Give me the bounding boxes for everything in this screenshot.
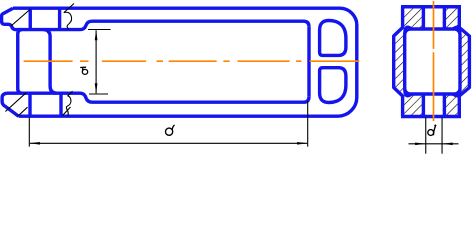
label d <box>428 125 436 136</box>
D-hole upper <box>320 20 346 55</box>
main view outer contour <box>13 8 357 116</box>
jaw slot wall V1 top <box>29 8 32 29</box>
dimension d <box>409 118 459 154</box>
slot right end bar <box>307 27 310 97</box>
right view cavity <box>405 29 460 94</box>
label a <box>80 67 88 74</box>
hatch bottom sliver <box>63 107 71 116</box>
right view slot walls top <box>423 7 444 29</box>
D-hole lower <box>320 68 346 103</box>
hatch lower jaw <box>5 93 27 117</box>
hatch upper jaw <box>11 9 31 26</box>
dimension b (Cyrillic) <box>29 101 307 147</box>
jaw slot wall V2 bottom <box>59 93 62 116</box>
label b <box>166 125 175 135</box>
lower jaw outline (left end bottom hook) <box>2 93 19 116</box>
mouth back wall <box>18 30 22 94</box>
squiggle break line bottom <box>66 91 72 116</box>
right view outer contour <box>394 7 470 117</box>
slot bottom edge with left S-curve <box>80 93 309 102</box>
jaw slot wall V1 bottom <box>28 93 31 116</box>
centreline main view <box>24 1 434 121</box>
axis right view <box>433 1 435 121</box>
throat bottom line <box>7 91 80 94</box>
slot top edge with left S-curve <box>80 21 309 29</box>
squiggle break line top <box>64 4 74 30</box>
dimension a <box>88 30 111 95</box>
right view slot walls bottom <box>423 94 444 117</box>
slot left edge with fillets <box>44 30 57 94</box>
jaw slot wall V2 top <box>58 8 61 29</box>
cavity corner ears <box>405 27 460 96</box>
upper jaw outline (left end top) <box>2 8 80 29</box>
right view section hatching <box>394 7 470 117</box>
